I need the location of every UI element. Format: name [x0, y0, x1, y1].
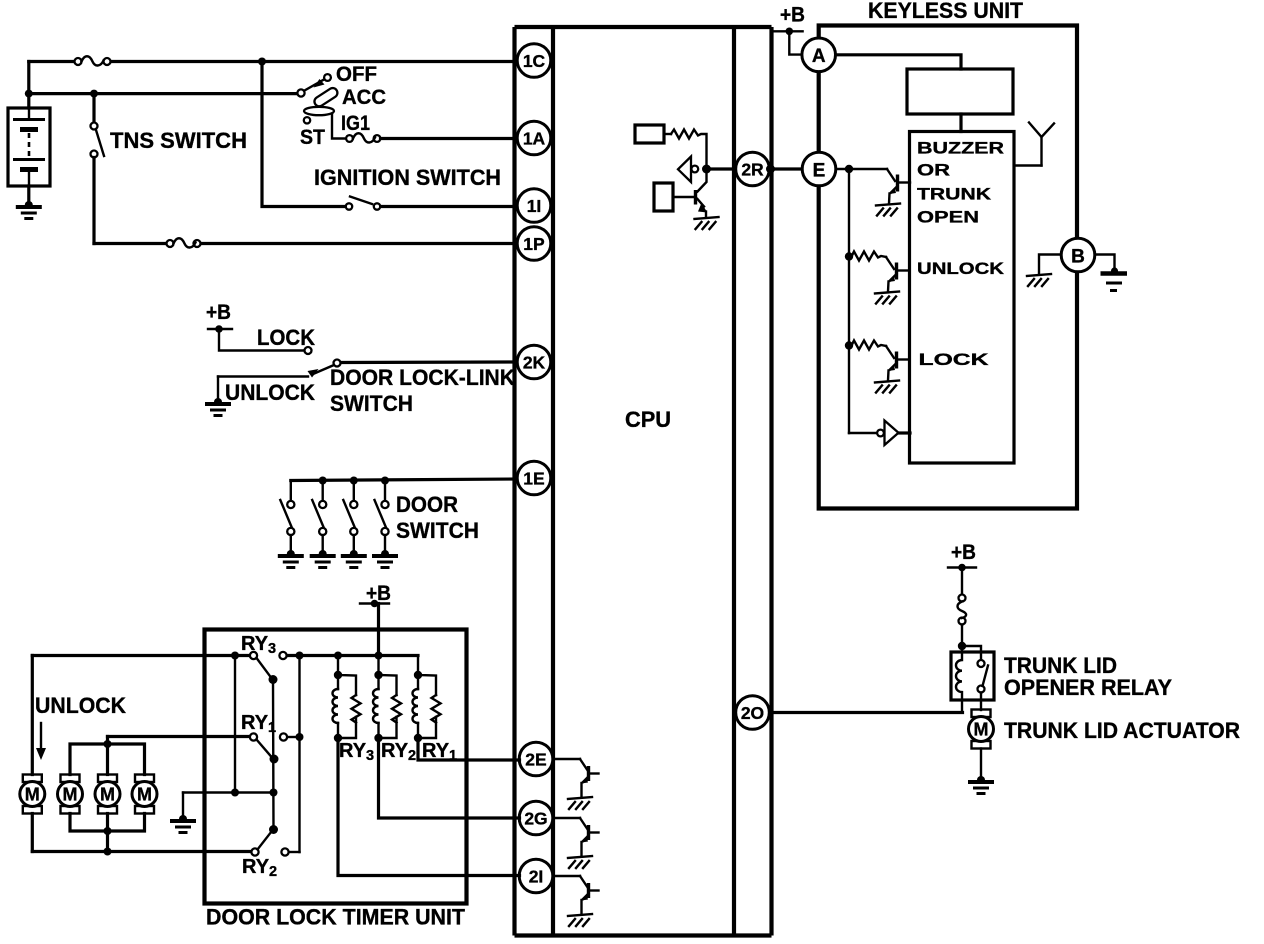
- svg-text:OPEN: OPEN: [917, 208, 979, 227]
- svg-text:OR: OR: [917, 161, 950, 180]
- svg-text:1P: 1P: [523, 234, 545, 254]
- svg-text:1C: 1C: [523, 51, 546, 71]
- svg-text:+B: +B: [206, 301, 231, 324]
- svg-text:KEYLESS UNIT: KEYLESS UNIT: [868, 0, 1023, 23]
- svg-text:BUZZER: BUZZER: [917, 139, 1004, 158]
- svg-text:+B: +B: [951, 541, 976, 564]
- svg-text:TNS SWITCH: TNS SWITCH: [110, 128, 247, 153]
- svg-text:UNLOCK: UNLOCK: [917, 259, 1005, 278]
- svg-text:+B: +B: [366, 582, 391, 605]
- svg-text:1I: 1I: [527, 196, 542, 216]
- svg-text:E: E: [813, 161, 826, 182]
- svg-text:LOCK: LOCK: [919, 350, 990, 369]
- svg-text:LOCK: LOCK: [257, 325, 316, 350]
- svg-text:DOOR: DOOR: [396, 492, 458, 517]
- svg-text:1E: 1E: [523, 469, 544, 489]
- svg-text:SWITCH: SWITCH: [330, 391, 413, 416]
- svg-text:DOOR LOCK-LINK: DOOR LOCK-LINK: [330, 365, 516, 390]
- svg-text:2E: 2E: [525, 750, 546, 770]
- svg-text:A: A: [812, 46, 826, 67]
- svg-text:2G: 2G: [524, 809, 547, 829]
- svg-text:TRUNK LID ACTUATOR: TRUNK LID ACTUATOR: [1004, 718, 1240, 743]
- svg-text:2O: 2O: [741, 703, 764, 723]
- svg-text:+B: +B: [780, 4, 805, 27]
- svg-text:IG1: IG1: [341, 112, 370, 135]
- svg-text:2K: 2K: [523, 353, 546, 373]
- svg-text:CPU: CPU: [625, 407, 671, 432]
- svg-text:1A: 1A: [523, 129, 546, 149]
- svg-text:B: B: [1071, 247, 1085, 268]
- svg-text:TRUNK: TRUNK: [917, 185, 992, 204]
- svg-text:2I: 2I: [529, 867, 544, 887]
- svg-text:DOOR LOCK TIMER UNIT: DOOR LOCK TIMER UNIT: [206, 905, 465, 930]
- svg-text:ST: ST: [300, 126, 325, 149]
- svg-text:IGNITION SWITCH: IGNITION SWITCH: [314, 165, 501, 190]
- svg-text:UNLOCK: UNLOCK: [225, 380, 316, 405]
- svg-text:SWITCH: SWITCH: [396, 518, 479, 543]
- svg-text:UNLOCK: UNLOCK: [35, 693, 127, 718]
- svg-text:ACC: ACC: [342, 86, 386, 109]
- svg-text:OPENER RELAY: OPENER RELAY: [1004, 675, 1172, 700]
- svg-text:OFF: OFF: [336, 63, 377, 86]
- svg-text:2R: 2R: [741, 160, 764, 180]
